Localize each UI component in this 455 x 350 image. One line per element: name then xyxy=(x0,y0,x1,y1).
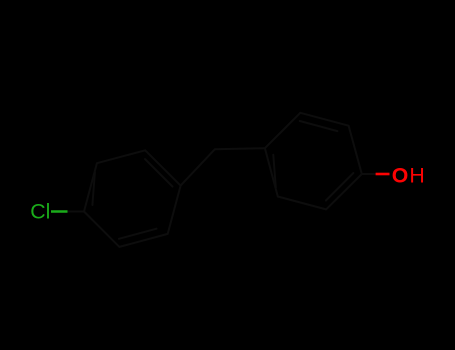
svg-text:Cl: Cl xyxy=(30,200,50,224)
benzene ring 1 (chlorophenyl) outline xyxy=(84,150,181,247)
svg-text:O: O xyxy=(392,163,409,187)
benzene ring 2 inner double-bond lines xyxy=(273,121,353,201)
svg-text:H: H xyxy=(409,163,424,187)
bridge bond CH2 segment 1 xyxy=(181,149,215,185)
benzene ring 1 inner double-bond lines xyxy=(92,159,172,239)
bond C-Cl green half xyxy=(51,210,68,212)
bond C-O dark half xyxy=(362,173,376,175)
benzene ring 2 (phenol) outline xyxy=(265,113,362,210)
bond C-Cl dark half xyxy=(68,211,85,213)
bridge bond CH2 segment 2 xyxy=(215,148,265,149)
bond C-O red half xyxy=(376,173,390,176)
